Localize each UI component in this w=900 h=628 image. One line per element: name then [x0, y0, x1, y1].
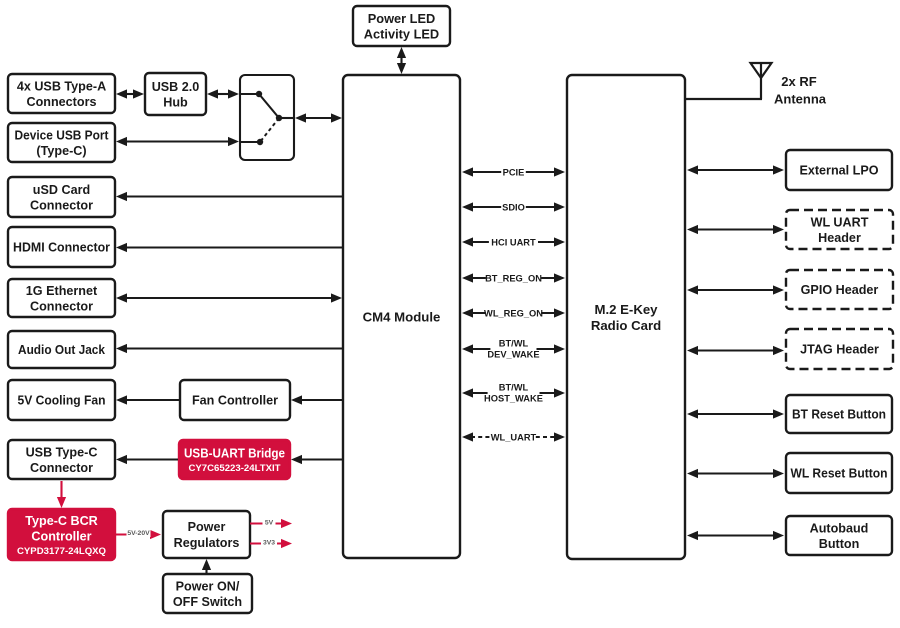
svg-text:BT/WL: BT/WL	[499, 382, 529, 392]
wire: WL_UART bus CM4 to M.2	[462, 432, 565, 441]
block U2: M.2 E-Key Radio Card	[567, 75, 685, 559]
svg-text:USB 2.0: USB 2.0	[152, 80, 200, 94]
block J4: HDMI Connector	[8, 227, 115, 267]
wire: CM4 to HDMI connector	[116, 243, 343, 252]
svg-text:Button: Button	[819, 537, 860, 551]
power rail: 3V3 output	[250, 539, 292, 548]
block U6: USB-UART Bridge CY7C65223-24LTXIT	[179, 440, 290, 479]
svg-text:Connectors: Connectors	[27, 95, 97, 109]
block J2: Device USB Port (Type-C)	[8, 123, 115, 162]
wire: HCI UART bus CM4 to M.2	[462, 237, 565, 246]
net label: 3V3	[261, 536, 277, 547]
wire: fan controller to 5V cooling fan	[116, 395, 179, 404]
wire: PCIE bus CM4 to M.2	[462, 167, 565, 176]
svg-text:Device USB Port: Device USB Port	[15, 128, 110, 142]
block: Power Regulators	[163, 511, 250, 558]
block J6: Audio Out Jack	[8, 331, 115, 368]
wire: CM4 to uSD card connector	[116, 192, 343, 201]
svg-text:HDMI Connector: HDMI Connector	[13, 241, 110, 255]
svg-text:JTAG Header: JTAG Header	[800, 343, 879, 357]
wire: M.2 radio card to GPIO header	[687, 285, 784, 294]
svg-text:CYPD3177-24LQXQ: CYPD3177-24LQXQ	[17, 546, 107, 557]
wire: BCR controller to power regulators (5V-20V)	[116, 530, 161, 539]
block U4: USB 2.0 Hub	[145, 73, 206, 115]
svg-text:Controller: Controller	[31, 529, 91, 543]
svg-text:Connector: Connector	[30, 461, 93, 475]
block J1: 4x USB Type-A Connectors	[8, 74, 115, 113]
net label: WL_REG_ON	[484, 308, 543, 319]
svg-text:4x USB Type-A: 4x USB Type-A	[17, 79, 106, 93]
svg-text:Power LED: Power LED	[368, 11, 436, 26]
svg-text:OFF Switch: OFF Switch	[173, 595, 242, 609]
svg-text:USB Type-C: USB Type-C	[26, 445, 98, 459]
svg-text:5V-20V: 5V-20V	[127, 530, 150, 537]
svg-text:uSD Card: uSD Card	[33, 183, 90, 197]
svg-text:External LPO: External LPO	[799, 164, 878, 178]
svg-text:GPIO Header: GPIO Header	[801, 283, 879, 297]
svg-text:WL_REG_ON: WL_REG_ON	[484, 308, 543, 318]
power rail: 5V output	[250, 519, 292, 528]
net label: WL_UART	[491, 432, 537, 443]
svg-text:DEV_WAKE: DEV_WAKE	[487, 349, 539, 359]
svg-text:WL Reset Button: WL Reset Button	[791, 467, 888, 481]
switch S1: pole output stub	[279, 117, 294, 119]
svg-text:CM4 Module: CM4 Module	[363, 309, 441, 324]
svg-text:2x RF: 2x RF	[781, 74, 816, 89]
wire: M.2 radio card to antenna	[685, 98, 762, 100]
wire: CM4 to audio out jack	[116, 344, 343, 353]
svg-text:Type-C BCR: Type-C BCR	[25, 514, 98, 528]
block J10: JTAG Header	[786, 329, 893, 369]
svg-text:Fan Controller: Fan Controller	[192, 394, 278, 408]
svg-text:SDIO: SDIO	[502, 202, 525, 212]
wire: BT/WL DEV_WAKE bus CM4 to M.2	[462, 344, 565, 353]
switch S1: alternate position (dashed)	[260, 118, 279, 142]
wire: M.2 radio card to external LPO	[687, 165, 784, 174]
svg-text:WL UART: WL UART	[811, 215, 869, 229]
net label: BT_REG_ON	[485, 273, 542, 284]
svg-text:Connector: Connector	[30, 299, 93, 313]
block J9: GPIO Header	[786, 270, 893, 309]
net label: SDIO	[501, 202, 526, 213]
wire: CM4 to USB-UART bridge	[291, 455, 343, 464]
svg-text:Regulators: Regulators	[174, 536, 240, 550]
wire: USB Type-A connectors to USB 2.0 hub	[116, 89, 144, 98]
wire: USB Type-C connector to Type-C BCR controller (VBUS)	[57, 481, 66, 508]
antenna ANT1: 2x RF antenna symbol	[751, 63, 772, 99]
svg-text:HOST_WAKE: HOST_WAKE	[484, 393, 543, 403]
svg-text:WL_UART: WL_UART	[491, 432, 537, 442]
svg-text:BT Reset Button: BT Reset Button	[792, 408, 886, 422]
wire: M.2 radio card to WL reset button	[687, 469, 784, 478]
svg-text:BT/WL: BT/WL	[499, 338, 529, 348]
wire: CM4 to 1G Ethernet connector	[116, 293, 342, 302]
switch S1: USB host/device mux box	[240, 75, 294, 160]
svg-text:1G Ethernet: 1G Ethernet	[26, 284, 98, 298]
wire: M.2 radio card to JTAG header	[687, 346, 784, 355]
net label: BT/WL DEV_WAKE	[487, 338, 539, 361]
wire: BT_REG_ON bus CM4 to M.2	[462, 273, 565, 282]
svg-text:3V3: 3V3	[263, 539, 275, 546]
svg-text:Autobaud: Autobaud	[810, 521, 869, 535]
svg-text:CY7C65223-24LTXIT: CY7C65223-24LTXIT	[188, 463, 280, 474]
svg-text:Power ON/: Power ON/	[176, 579, 240, 593]
block SW2: WL Reset Button	[786, 453, 892, 493]
block J5: 1G Ethernet Connector	[8, 279, 115, 317]
net label: PCIE	[501, 167, 526, 178]
svg-text:5V Cooling Fan: 5V Cooling Fan	[18, 394, 106, 408]
block J8: WL UART Header	[786, 210, 893, 249]
block U1: CM4 Module	[343, 75, 460, 558]
label: 2x RF Antenna	[774, 74, 827, 107]
block SW1: BT Reset Button	[786, 395, 892, 433]
wire: M.2 radio card to BT reset button	[687, 409, 784, 418]
net label: HCI UART	[489, 237, 538, 248]
svg-text:USB-UART Bridge: USB-UART Bridge	[184, 447, 285, 461]
wire: switch S1 to CM4 USB	[295, 113, 342, 122]
wire: Power/Activity LED to CM4 (bidirectional)	[397, 47, 406, 74]
block Y1: External LPO	[786, 150, 892, 190]
svg-text:Power: Power	[188, 520, 226, 534]
block J3: uSD Card Connector	[8, 177, 115, 217]
block J7: USB Type-C Connector	[8, 440, 115, 479]
block U5: Fan Controller	[180, 380, 290, 420]
block S2: Power ON/OFF Switch	[163, 574, 252, 613]
svg-text:Antenna: Antenna	[774, 92, 827, 107]
wire: power ON/OFF switch to power regulators	[202, 559, 211, 573]
block: 5V Cooling Fan	[8, 380, 115, 420]
svg-text:(Type-C): (Type-C)	[36, 144, 86, 158]
svg-text:Audio Out Jack: Audio Out Jack	[18, 343, 106, 357]
wire: WL_REG_ON bus CM4 to M.2	[462, 308, 565, 317]
wire: Device USB port to switch S1	[116, 137, 239, 146]
svg-text:PCIE: PCIE	[503, 167, 525, 177]
wire: M.2 radio card to autobaud button	[687, 531, 784, 540]
svg-text:HCI UART: HCI UART	[491, 237, 536, 247]
svg-text:Activity LED: Activity LED	[364, 26, 439, 41]
block: Power LED / Activity LED	[353, 6, 450, 46]
svg-text:Hub: Hub	[163, 95, 188, 109]
switch S1: pole arm (selected position, solid)	[259, 94, 282, 121]
switch S1: throw contact A (from USB hub)	[240, 91, 262, 97]
svg-text:5V: 5V	[265, 519, 274, 526]
net label: 5V-20V	[127, 526, 151, 537]
svg-text:BT_REG_ON: BT_REG_ON	[485, 273, 542, 283]
wire: BT/WL HOST_WAKE bus CM4 to M.2	[462, 388, 565, 397]
block U3: Type-C BCR Controller CYPD3177-24LQXQ	[8, 509, 115, 560]
svg-text:Connector: Connector	[30, 198, 93, 212]
net label: BT/WL HOST_WAKE	[484, 382, 543, 405]
svg-text:M.2 E-Key: M.2 E-Key	[594, 302, 658, 317]
wire: USB 2.0 hub to switch S1	[207, 89, 239, 98]
net label: 5V	[263, 516, 276, 527]
wire: CM4 to fan controller	[291, 395, 343, 404]
wire: SDIO bus CM4 to M.2	[462, 202, 565, 211]
svg-text:Header: Header	[818, 231, 861, 245]
wire: USB-UART bridge to USB Type-C connector	[116, 455, 178, 464]
wire: M.2 radio card to WL UART header	[687, 225, 784, 234]
block SW3: Autobaud Button	[786, 516, 892, 555]
svg-text:Radio Card: Radio Card	[591, 318, 661, 333]
switch S1: throw contact B (from device USB port)	[240, 139, 263, 145]
